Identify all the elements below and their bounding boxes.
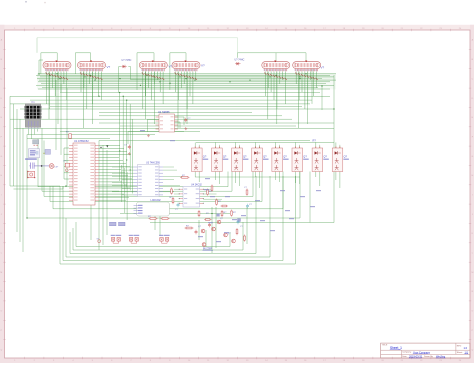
svg-text:V?: V? (321, 66, 325, 70)
svg-text:Q?: Q? (323, 155, 327, 159)
svg-text:G: G (472, 156, 474, 158)
svg-text:Q?: Q? (243, 155, 247, 159)
svg-text:U2 NE555: U2 NE555 (158, 111, 170, 114)
svg-text:R?: R? (313, 139, 317, 143)
svg-text:WeiJing: WeiJing (436, 354, 446, 358)
svg-text:M: M (0, 272, 2, 274)
svg-text:V?: V? (169, 65, 173, 69)
svg-text:Q?: Q? (263, 155, 267, 159)
svg-text:U? 74HC: U? 74HC (235, 59, 245, 62)
svg-text:Q?: Q? (283, 155, 287, 159)
svg-text:M: M (471, 272, 473, 274)
svg-text:2019-03-31: 2019-03-31 (409, 354, 423, 358)
svg-text:Q?: Q? (203, 155, 207, 159)
svg-text:Q: Q (0, 349, 2, 351)
svg-text:O: O (0, 311, 2, 313)
svg-text:J: J (1, 214, 2, 216)
svg-text:U3 74HC595: U3 74HC595 (146, 162, 160, 165)
svg-text:Sheet_1: Sheet_1 (390, 346, 402, 350)
svg-text:U4 24C02: U4 24C02 (191, 183, 202, 186)
svg-text:Q?: Q? (303, 155, 307, 159)
svg-text:V?: V? (107, 65, 111, 69)
svg-text:Date:: Date: (402, 355, 407, 358)
svg-text:REV:: REV: (457, 345, 462, 347)
svg-text:V?: V? (201, 64, 205, 68)
svg-text:G: G (0, 156, 2, 158)
svg-text:Q?: Q? (223, 155, 227, 159)
svg-text:Q: Q (472, 349, 474, 351)
svg-text:Sheet:: Sheet: (457, 351, 463, 354)
svg-text:LCD1602: LCD1602 (151, 199, 162, 202)
svg-text:U1 AT89C52: U1 AT89C52 (74, 139, 89, 143)
svg-text:Q?: Q? (344, 155, 348, 159)
svg-text:Company:: Company: (402, 352, 412, 354)
svg-text:U? 74HC: U? 74HC (122, 59, 132, 62)
svg-text:K1: K1 (32, 100, 36, 104)
svg-text:Drawn By:: Drawn By: (424, 356, 434, 358)
svg-text:1.0: 1.0 (464, 346, 468, 350)
svg-text:TITLE:: TITLE: (382, 345, 388, 347)
svg-text:J: J (472, 214, 473, 216)
svg-text:O: O (472, 311, 474, 313)
